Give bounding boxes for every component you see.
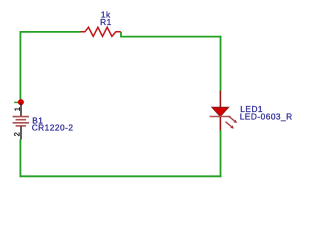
- wire top-left horizontal: [20, 31, 81, 33]
- LED emission arrow lower: [226, 122, 234, 129]
- wire step jog at resistor: [120, 32, 122, 37]
- battery B1 plate short upper: [16, 119, 26, 121]
- wire bottom horizontal: [20, 175, 222, 177]
- junction dot node: [18, 99, 24, 105]
- battery pin number 1: [15, 107, 20, 110]
- battery B1 pin 1 lead: [20, 104, 22, 117]
- wire right-lower vertical: [220, 130, 222, 177]
- LED LED1 triangle: [212, 107, 228, 116]
- wire left vertical: [19, 31, 21, 102]
- battery pin number 2: [14, 133, 19, 136]
- svg-text:LED-0603_R: LED-0603_R: [240, 111, 293, 121]
- wire left-lower vertical: [19, 139, 21, 177]
- wire top-right horizontal: [120, 36, 221, 38]
- LED LED1 anode pin: [219, 91, 221, 108]
- wire battery stub: [14, 101, 18, 103]
- LED LED1 cathode bar: [210, 116, 231, 118]
- resistor R1: [81, 27, 121, 36]
- svg-text:CR1220-2: CR1220-2: [32, 122, 74, 132]
- wire right-upper vertical: [220, 36, 222, 92]
- svg-text:R1: R1: [100, 17, 112, 27]
- LED emission arrow upper: [229, 116, 237, 123]
- LED LED1 cathode pin: [219, 117, 221, 130]
- battery B1 plate short lower: [16, 125, 26, 127]
- battery B1 plate long top: [13, 116, 29, 118]
- battery B1 plate long bottom: [13, 122, 29, 124]
- battery B1 pin 2 lead: [20, 127, 22, 140]
